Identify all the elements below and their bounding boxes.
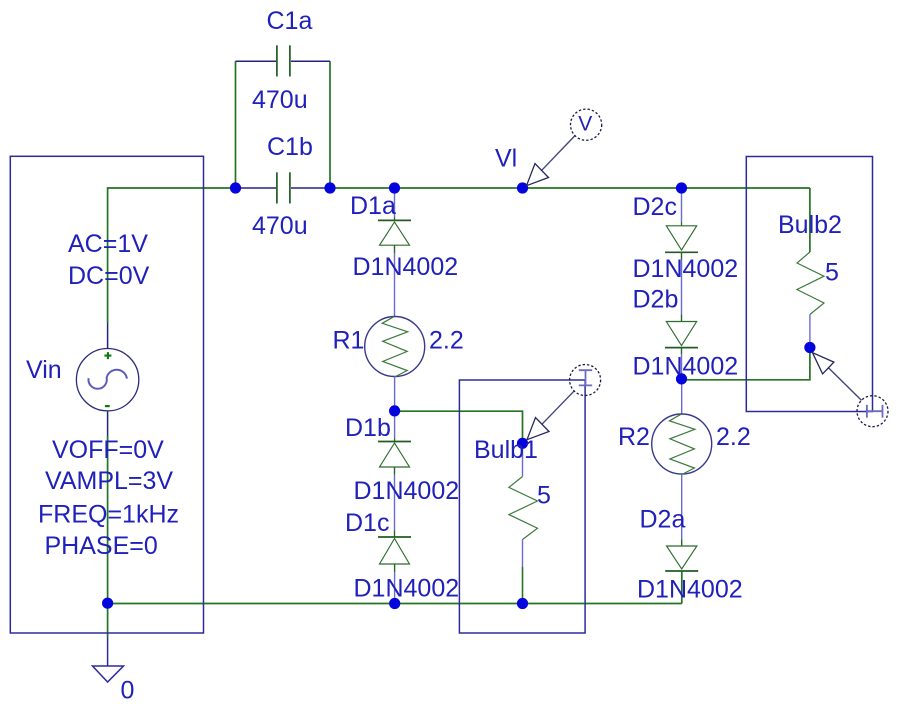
svg-text:VAMPL=3V: VAMPL=3V [45, 467, 173, 495]
node rail D1c [389, 598, 400, 609]
node C1 left [230, 182, 241, 193]
wire Bulb2 top riser [809, 188, 811, 252]
wire D1b to D1c [394, 475, 396, 531]
diode D2a top stub [681, 540, 683, 547]
Vin plus sign [104, 352, 111, 359]
svg-text:470u: 470u [252, 86, 308, 114]
diode D1b top lead [394, 411, 396, 438]
Bulb1 enclosure box [459, 380, 585, 633]
diode D1a top lead [394, 188, 396, 217]
svg-text:D1c: D1c [345, 509, 389, 537]
svg-text:D1N4002: D1N4002 [354, 477, 460, 505]
node D1a top [389, 182, 400, 193]
svg-text:D1N4002: D1N4002 [354, 575, 460, 603]
svg-text:V: V [578, 113, 592, 136]
svg-text:Vin: Vin [26, 356, 62, 384]
wire top rail [330, 187, 810, 189]
wire R2 to D2a [681, 474, 683, 540]
wire node R1 to Bulb1 top [395, 411, 523, 443]
resistor R2 zigzag [669, 414, 695, 474]
wire Vin bottom segment [107, 436, 109, 604]
Vin enclosure box [10, 156, 203, 633]
wire D2c to D2b [681, 260, 683, 315]
node Bulb2 bottom [804, 342, 815, 353]
diode D1a bottom stub [394, 245, 396, 253]
diode D2a [665, 546, 698, 571]
svg-text:Bulb1: Bulb1 [474, 436, 538, 464]
capacitor C1a lead left [236, 60, 277, 62]
svg-text:D2c: D2c [633, 193, 677, 221]
Bulb1 lamp top lead [522, 443, 524, 476]
diode D1c top stub [394, 531, 396, 538]
svg-text:VOFF=0V: VOFF=0V [52, 436, 164, 464]
Bulb1 lamp bottom lead [522, 540, 524, 568]
diode D2b [665, 322, 698, 348]
current probe I marker Bulb2 [813, 353, 889, 427]
svg-text:5: 5 [537, 482, 551, 510]
svg-text:D1b: D1b [345, 414, 391, 442]
svg-text:D2a: D2a [640, 506, 686, 534]
capacitor C1b plates [276, 172, 278, 203]
wire D1a to R1 [394, 253, 396, 317]
svg-text:Bulb2: Bulb2 [778, 211, 842, 239]
Bulb2 lamp zigzag [797, 252, 824, 315]
Vin source pin top [107, 323, 109, 349]
capacitor C1b lead right [291, 187, 330, 189]
ground symbol 0 [93, 666, 124, 682]
svg-text:D1N4002: D1N4002 [633, 255, 739, 283]
diode D1a [378, 220, 411, 245]
node rail Vin [102, 598, 113, 609]
diode D1c bottom stub [394, 564, 396, 572]
node Vl probe [517, 182, 528, 193]
wire node to R2 [681, 380, 683, 414]
diode D1c [378, 537, 411, 564]
diode D2c top lead [681, 188, 683, 222]
wire bottom rail [108, 603, 682, 605]
resistor R2 circle [652, 414, 712, 474]
Vin source circle [76, 349, 138, 411]
Vin source pin bottom [107, 411, 109, 436]
ground lead [107, 637, 109, 666]
diode D1b bottom stub [394, 467, 396, 475]
svg-text:D1a: D1a [350, 192, 396, 220]
Vin minus sign [105, 405, 110, 407]
svg-text:R2: R2 [618, 423, 650, 451]
svg-text:C1a: C1a [267, 7, 313, 35]
diode D2c bottom stub [681, 252, 683, 259]
wire D2b to node [681, 354, 683, 380]
svg-text:470u: 470u [252, 212, 308, 240]
svg-text:2.2: 2.2 [716, 423, 751, 451]
Bulb2 lamp bottom lead [809, 315, 811, 348]
resistor R1 circle [365, 317, 425, 377]
wire Vin top to node C1 left [108, 188, 236, 323]
node R1 bottom [389, 405, 400, 416]
svg-text:AC=1V: AC=1V [68, 230, 148, 258]
Bulb2 enclosure box [746, 157, 872, 412]
svg-text:FREQ=1kHz: FREQ=1kHz [38, 501, 179, 529]
node rail Bulb1 [517, 598, 528, 609]
node Bulb1 top [517, 438, 528, 449]
diode D2b top stub [681, 315, 683, 322]
node D2b bottom [676, 373, 687, 384]
svg-text:DC=0V: DC=0V [68, 262, 150, 290]
wire Vin ground stub [107, 604, 109, 638]
wire R1 to node [394, 377, 396, 412]
wire C1a loop right riser [329, 61, 331, 188]
Vin sine wave [88, 370, 126, 389]
svg-text:PHASE=0: PHASE=0 [45, 532, 158, 560]
svg-text:Vl: Vl [495, 145, 517, 173]
diode D2c [665, 226, 698, 253]
wire C1a loop left riser [235, 61, 237, 188]
resistor R1 zigzag [382, 317, 408, 377]
svg-text:2.2: 2.2 [429, 327, 464, 355]
diode D1b [378, 442, 411, 468]
wire D1c to rail [394, 572, 396, 604]
capacitor C1a lead right [291, 60, 330, 62]
wire D2a bottom to rail [681, 571, 683, 604]
voltage probe V marker [527, 109, 602, 186]
svg-text:D1N4002: D1N4002 [637, 576, 743, 604]
diode D2b bottom stub [681, 348, 683, 354]
capacitor C1a plates [276, 45, 278, 76]
node C1 right [324, 182, 335, 193]
svg-text:D1N4002: D1N4002 [353, 253, 459, 281]
svg-text:C1b: C1b [267, 133, 313, 161]
Bulb1 lamp zigzag [509, 477, 538, 540]
junction node dots [102, 182, 816, 609]
node D2c top [676, 182, 687, 193]
wire node D2b to Bulb2 bottom [682, 348, 810, 380]
svg-text:R1: R1 [333, 327, 365, 355]
svg-text:D1N4002: D1N4002 [633, 353, 739, 381]
capacitor C1b lead left [236, 187, 277, 189]
current probe I marker Bulb1 [527, 365, 601, 440]
svg-text:D2b: D2b [633, 286, 679, 314]
svg-text:5: 5 [825, 259, 839, 287]
svg-text:0: 0 [121, 677, 135, 705]
